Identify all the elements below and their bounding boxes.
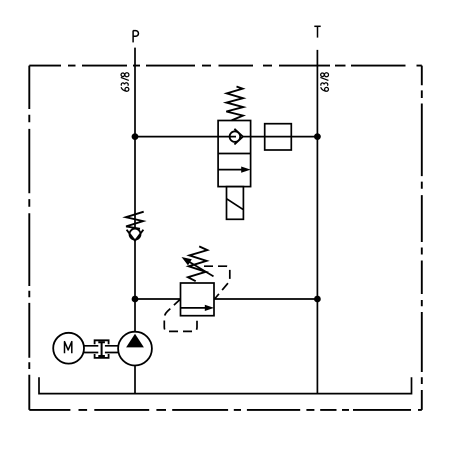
coupling: center I piece [98,342,105,356]
digit 8 [321,73,325,77]
digit 3 [121,83,124,86]
pump P1: circle [118,332,152,366]
relief valve RV1: adjustment arrow [185,259,214,276]
shaft: motor to coupling [84,346,98,353]
wire: P line upper segment [134,48,136,229]
valve V1: check seat [234,129,243,145]
coupling: bottom bracket [95,354,109,358]
electric motor M1: circle [53,333,84,364]
wire: T line [316,50,318,394]
port label T [314,26,320,37]
relief valve RV1: spring [188,246,207,281]
junction node: T x lower line [314,296,321,303]
digit 3 [321,83,324,86]
check valve CV1: seat [127,230,144,241]
electric motor M1: label M [65,342,72,354]
coupling: top bracket [95,340,109,344]
digit 6 [321,87,327,91]
valve V1: solenoid diagonal [227,199,244,210]
valve V1: check ball (closed position) [230,131,241,142]
tank / reservoir line [39,377,412,393]
port label P [133,31,138,43]
enclosure border (dash-dot chain line) [29,66,422,410]
pump P1: flow triangle (pointing up) [126,334,144,348]
slash [121,77,129,80]
slash [320,77,328,80]
pipe size label 63/8 (P line) [121,73,129,91]
wire: lower horizontal P-junction to relief valve [135,298,181,300]
valve V1: solenoid coil [227,187,244,220]
digit 8 [121,73,125,77]
orifice / plug block on line to T [265,124,292,150]
wire: P line middle segment (below check valve) [134,241,136,332]
valve V1: return spring [226,87,243,121]
pipe size label 63/8 (T line) [320,73,328,91]
junction node: T x top line [314,133,321,140]
wire: top horizontal valve to T-junction [251,136,318,138]
valve V1: flow arrow (open position) [218,169,244,171]
solenoid cartridge valve V1: body (two position boxes) [218,121,251,187]
relief valve RV1: flow arrow [181,307,207,309]
junction node: P x top line [132,133,139,140]
wire: top horizontal inside valve (left of check ball) [218,136,236,138]
wire: top horizontal seat-to-box-edge [243,136,251,138]
wire: lower horizontal relief valve to T-junction [214,298,317,300]
relief valve RV1: vent pilot line (dashed) [204,266,230,298]
digit 6 [121,87,127,91]
wire: P line pump-to-tank segment [134,365,136,393]
check valve CV1 on P line: spring [126,212,144,229]
relief valve RV1: body [181,283,215,316]
check valve CV1: ball [130,229,141,240]
relief valve RV1: inlet pilot line (dashed) [164,299,197,331]
wire: top horizontal P-junction to valve [135,136,218,138]
shaft: coupling to pump [105,346,118,353]
junction node: P x lower line [132,296,139,303]
